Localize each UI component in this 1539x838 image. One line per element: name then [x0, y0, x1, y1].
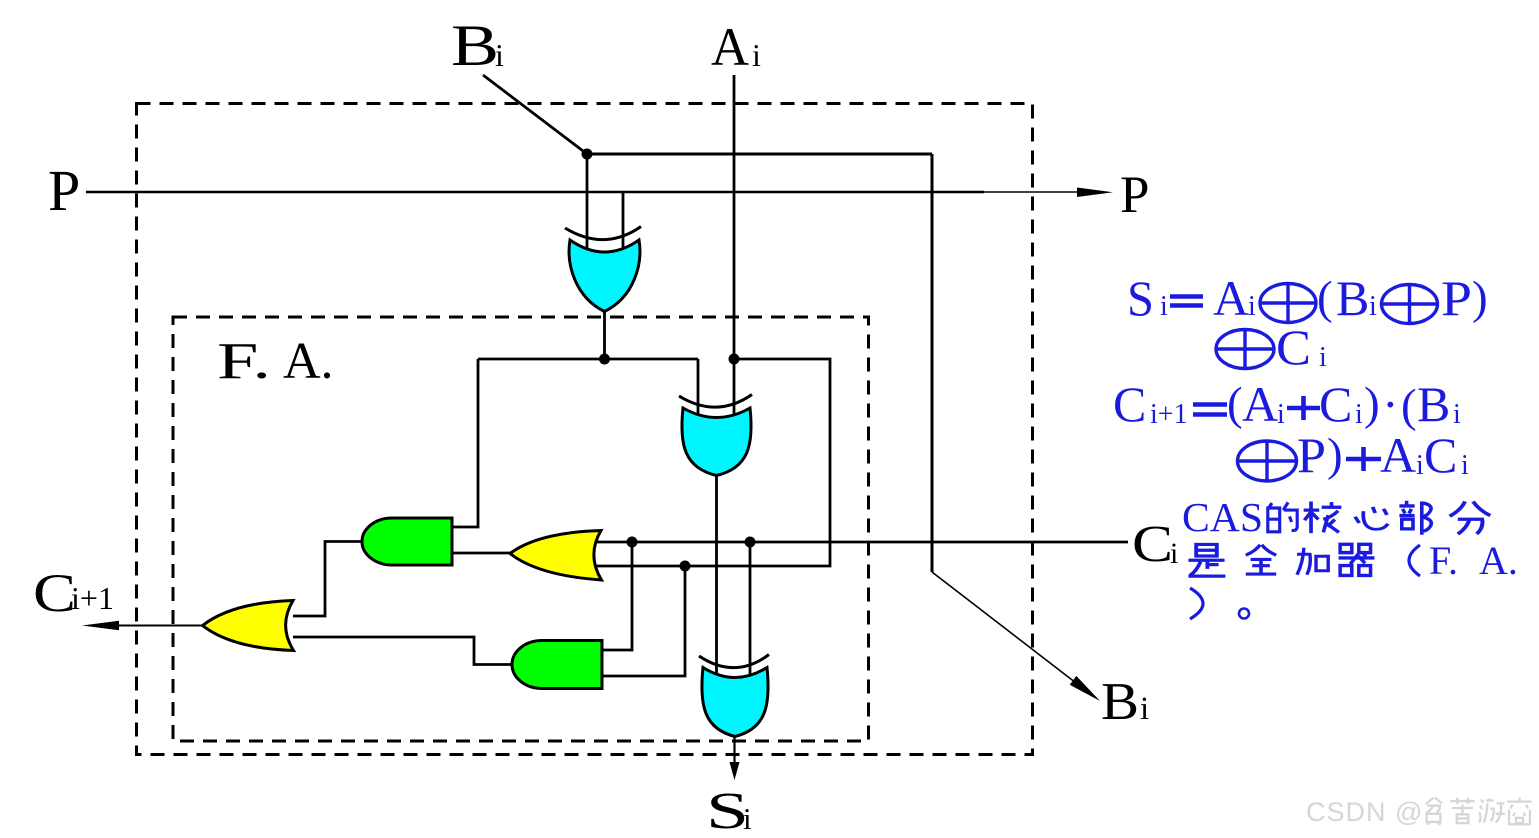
svg-text:B: B: [1101, 673, 1139, 731]
wire AND2 bottom input: [602, 566, 685, 676]
svg-text:B: B: [1417, 376, 1450, 432]
svg-text:A: A: [1213, 270, 1249, 326]
wire B_i horizontal bus: [587, 153, 932, 156]
svg-text:CAS: CAS: [1182, 494, 1263, 540]
svg-text:P: P: [1120, 166, 1149, 224]
hanzi xin: [1355, 507, 1388, 529]
svg-text:): ): [1364, 378, 1380, 430]
outer dashed box: [137, 104, 1033, 755]
wire AND1 top input riser: [452, 359, 478, 527]
svg-text:): ): [1327, 429, 1343, 481]
svg-text:P: P: [48, 158, 80, 223]
xor symbol formula 1a: [1260, 284, 1316, 323]
fullwidth close paren: [1190, 588, 1203, 619]
node B_i junction: [582, 149, 593, 160]
hanzi qi: [1339, 544, 1375, 575]
wire B_i input diagonal: [483, 75, 587, 154]
inner dashed box F.A.: [173, 317, 869, 741]
wire AND1 output to OR2: [293, 542, 363, 617]
hanzi he: [1304, 501, 1342, 533]
wire B_i vertical down: [931, 154, 934, 572]
wire XOR1 input from B_i junction: [586, 154, 589, 251]
svg-text:i+1: i+1: [1150, 399, 1188, 430]
svg-text:CSDN @: CSDN @: [1306, 797, 1423, 827]
svg-text:i: i: [1248, 291, 1256, 322]
watermark hanzi pin: [1426, 798, 1442, 825]
wire AND2 top input: [602, 542, 632, 650]
plus sign formula 4: [1346, 447, 1381, 471]
svg-text:A: A: [1380, 427, 1416, 483]
xor gate U2 A xor (B xor P): [679, 395, 752, 476]
node XOR1 output junction: [599, 354, 610, 365]
wire XOR2 output: [715, 474, 718, 674]
wire P bus: [86, 191, 984, 194]
or gate U3 A+C: [510, 531, 602, 581]
node A_i branch junction: [680, 561, 691, 572]
svg-text:(: (: [1227, 378, 1243, 430]
svg-text:): ): [1472, 272, 1488, 324]
hanzi shi: [1188, 544, 1225, 576]
svg-text:i: i: [1319, 342, 1327, 373]
arrow P output: [1077, 188, 1113, 198]
svg-text:i: i: [1416, 450, 1424, 481]
svg-text:i: i: [1369, 291, 1377, 322]
node A_i junction: [729, 354, 740, 365]
wire C_i bus: [592, 541, 1128, 544]
hanzi de: [1268, 502, 1297, 531]
svg-text:i: i: [1160, 291, 1168, 322]
arrow B_i output: [1070, 676, 1100, 701]
xor gate U7 sum output: [699, 655, 769, 737]
svg-text:i: i: [1453, 399, 1461, 430]
svg-text:C: C: [1276, 319, 1311, 375]
svg-text:B: B: [451, 13, 499, 78]
svg-text:i: i: [743, 801, 752, 836]
xor symbol formula 2: [1216, 330, 1274, 369]
svg-text:i: i: [1140, 691, 1149, 727]
xor symbol formula 4: [1238, 441, 1297, 481]
svg-text:F.: F.: [217, 333, 271, 390]
svg-text:A.: A.: [283, 333, 334, 390]
svg-text:C: C: [1319, 376, 1352, 432]
wire XOR1 input from P: [622, 192, 625, 251]
svg-text:(: (: [1317, 272, 1333, 324]
equals sign formula 3: [1193, 405, 1227, 415]
wire OR1 output to AND1: [452, 552, 511, 555]
svg-text:A: A: [711, 17, 749, 77]
svg-text:i: i: [495, 37, 504, 73]
svg-text:F.: F.: [1429, 538, 1458, 583]
svg-text:P: P: [1297, 427, 1326, 483]
ideographic full stop: [1239, 609, 1249, 619]
fullwidth open paren: [1409, 545, 1420, 576]
watermark hanzi shang: [1507, 798, 1531, 825]
svg-text:A.: A.: [1479, 538, 1518, 583]
svg-text:i: i: [1277, 399, 1285, 430]
wire A_i branch around XOR2: [590, 359, 830, 566]
wire AND2 output to OR2: [293, 637, 513, 665]
arrow C_i+1 output: [82, 621, 119, 630]
wire A_i vertical: [733, 75, 736, 418]
wire XOR1 output: [603, 310, 606, 359]
svg-text:C: C: [33, 563, 76, 623]
wire C_i+1 output: [98, 625, 203, 627]
svg-text:i: i: [752, 37, 761, 73]
wire XOR3 right input: [749, 542, 752, 674]
svg-text:S: S: [1127, 270, 1154, 326]
wire S_i output: [733, 735, 735, 765]
hanzi quan: [1246, 545, 1276, 574]
svg-text:C: C: [1113, 376, 1146, 432]
and gate U5: [512, 641, 602, 689]
svg-text:(: (: [1401, 380, 1417, 432]
or gate U6 carry output: [203, 601, 294, 651]
svg-text:A: A: [1242, 376, 1278, 432]
svg-text:i: i: [1355, 399, 1363, 430]
and gate U4: [362, 518, 452, 565]
xor gate U1 B xor P: [565, 227, 641, 312]
hanzi jia: [1297, 548, 1328, 575]
arrow S_i output: [730, 762, 740, 780]
node C_i junction 1: [627, 537, 638, 548]
node C_i junction 2: [745, 537, 756, 548]
svg-text:·: ·: [1382, 376, 1399, 432]
wire XOR2 left input: [697, 359, 700, 418]
svg-text:P: P: [1441, 270, 1472, 326]
svg-text:i: i: [1170, 537, 1178, 570]
wire B_i output diagonal: [932, 572, 1078, 685]
equals sign formula 1: [1170, 297, 1203, 306]
watermark hanzi ku: [1450, 798, 1474, 824]
wire B xor P horizontal: [478, 358, 698, 361]
svg-text:i+1: i+1: [71, 580, 114, 616]
watermark hanzi you: [1479, 798, 1505, 822]
xor symbol formula 1b: [1382, 285, 1438, 324]
svg-text:B: B: [1336, 270, 1369, 326]
hanzi fen: [1450, 501, 1491, 534]
svg-text:C: C: [1132, 516, 1173, 573]
svg-text:C: C: [1424, 427, 1457, 483]
svg-text:i: i: [1461, 450, 1469, 481]
plus sign formula 3: [1287, 396, 1320, 420]
hanzi bu: [1399, 501, 1431, 535]
